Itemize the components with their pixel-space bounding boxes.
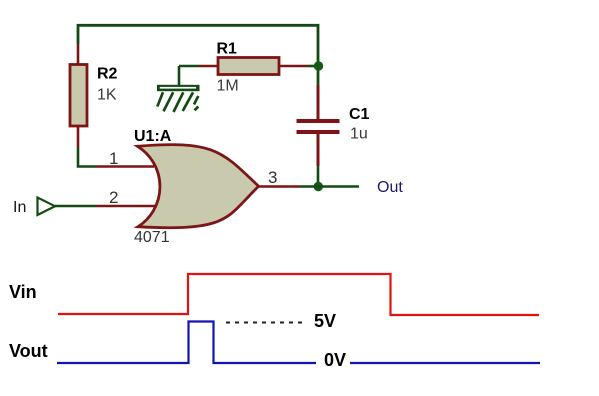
- label 0V: [324, 350, 346, 370]
- resistor R2: [70, 44, 87, 148]
- label Vin: [9, 282, 37, 302]
- svg-text:R2: R2: [97, 66, 118, 83]
- pin number 2: [109, 188, 118, 207]
- waveform Vout left: [57, 322, 316, 364]
- pin number 1: [109, 149, 118, 168]
- capacitor C1: [297, 85, 340, 166]
- wire top horizontal feedback: [78, 25, 318, 85]
- value 1u: [350, 126, 368, 143]
- pin number 3: [268, 168, 277, 187]
- svg-text:2: 2: [109, 188, 118, 207]
- label 5V: [314, 311, 336, 331]
- label U1:A: [134, 128, 172, 145]
- ground: [157, 66, 200, 112]
- or-gate U1:A: [138, 145, 259, 228]
- wire ground to R1: [179, 65, 199, 68]
- waveform Vin: [58, 274, 539, 315]
- svg-text:5V: 5V: [314, 311, 336, 331]
- svg-text:4071: 4071: [134, 229, 170, 246]
- svg-text:Out: Out: [377, 179, 403, 196]
- wire R1 right to node: [308, 65, 319, 68]
- label Vout: [9, 341, 48, 361]
- svg-text:1u: 1u: [350, 126, 368, 143]
- wire In to gate pin 2: [55, 205, 155, 208]
- dashed 5V level line: [226, 322, 305, 324]
- svg-text:C1: C1: [349, 106, 370, 123]
- value 1K: [97, 87, 117, 104]
- label R2: [97, 66, 118, 83]
- resistor R1: [199, 58, 308, 75]
- input port In: [38, 198, 56, 216]
- svg-text:R1: R1: [217, 40, 238, 57]
- svg-text:U1:A: U1:A: [134, 128, 172, 145]
- label R1: [217, 40, 238, 57]
- wire R2 bottom to gate pin 1: [78, 148, 154, 167]
- svg-text:0V: 0V: [324, 350, 346, 370]
- wire gate output: [258, 185, 360, 188]
- svg-text:1M: 1M: [217, 78, 239, 95]
- value 1M: [217, 78, 239, 95]
- label Out: [377, 179, 403, 196]
- junction node top: [314, 61, 323, 70]
- wire C1 bottom to node: [317, 166, 320, 187]
- svg-text:1: 1: [109, 149, 118, 168]
- junction node output: [314, 182, 323, 191]
- label C1: [349, 106, 370, 123]
- svg-text:3: 3: [268, 168, 277, 187]
- label In: [13, 199, 26, 216]
- svg-text:In: In: [13, 199, 26, 216]
- waveform Vout right: [350, 362, 540, 364]
- svg-text:1K: 1K: [97, 87, 117, 104]
- svg-text:Vin: Vin: [9, 282, 37, 302]
- svg-text:Vout: Vout: [9, 341, 48, 361]
- value 4071: [134, 229, 170, 246]
